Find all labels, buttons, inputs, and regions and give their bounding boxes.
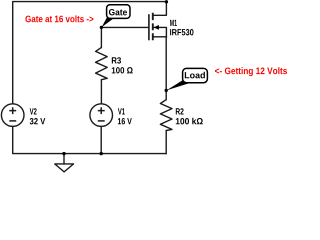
V2 minus sign bbox=[9, 120, 16, 122]
V2 plus sign bbox=[9, 107, 16, 114]
label R3 value bbox=[112, 67, 133, 73]
label V2 value bbox=[30, 118, 46, 124]
transistor M1 source lead bbox=[153, 36, 167, 38]
label M1 bbox=[170, 20, 177, 26]
M1 body arrow bbox=[154, 25, 159, 30]
label IRF530 bbox=[170, 29, 193, 35]
callout Load tail bbox=[166, 80, 190, 91]
wire gate node down to R3 bbox=[100, 27, 102, 47]
wire R3 to V1 bbox=[100, 80, 102, 104]
node gate junction dot bbox=[100, 26, 103, 29]
label V2 bbox=[30, 108, 37, 114]
wire R2 to ground rail bbox=[165, 131, 167, 154]
wire M1 source down to R2 bbox=[165, 37, 167, 100]
V1 plus sign bbox=[98, 107, 105, 114]
annotation red gate note bbox=[25, 15, 93, 22]
resistor R3 bbox=[96, 47, 108, 79]
wire top from V2 to M1 drain bbox=[13, 2, 167, 104]
callout Gate tail bbox=[102, 18, 114, 28]
node drain top junction dot bbox=[165, 0, 168, 3]
transistor M1 channel bar segments bbox=[152, 13, 154, 41]
label V1 value bbox=[118, 118, 132, 124]
transistor M1 drain lead bbox=[153, 2, 167, 16]
callout Load box bbox=[183, 68, 208, 82]
annotation red load note bbox=[215, 67, 287, 76]
wire V2 bottom to ground rail bbox=[13, 126, 166, 153]
ground stem bbox=[63, 154, 65, 164]
label R2 value bbox=[176, 118, 203, 125]
transistor M1 body lead bbox=[154, 27, 166, 36]
node ground junction dot bbox=[62, 152, 65, 155]
label R2 bbox=[176, 108, 184, 114]
callout Gate box bbox=[107, 5, 130, 19]
node V1 bottom junction dot bbox=[100, 152, 103, 155]
wire V1 bottom to ground rail bbox=[100, 126, 102, 153]
voltage source V2 bbox=[1, 104, 24, 127]
wire gate node to M1 gate bbox=[102, 26, 149, 28]
label V1 bbox=[118, 108, 125, 114]
transistor M1 gate bar bbox=[148, 15, 150, 40]
node load junction dot bbox=[165, 89, 168, 92]
callout Load text bbox=[185, 72, 205, 79]
V1 minus sign bbox=[98, 120, 105, 122]
resistor R2 bbox=[160, 100, 172, 131]
label R3 bbox=[112, 57, 121, 63]
voltage source V1 bbox=[90, 104, 113, 127]
ground symbol triangle bbox=[55, 164, 74, 172]
callout Gate text bbox=[109, 9, 127, 15]
